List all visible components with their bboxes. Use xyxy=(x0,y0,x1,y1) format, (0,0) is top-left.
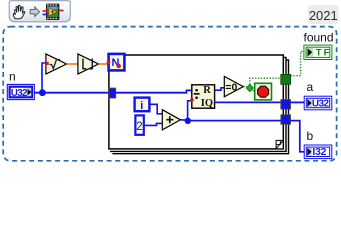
junction dot add out xyxy=(185,118,191,124)
snippet dashed border xyxy=(3,27,336,161)
svg-text:2: 2 xyxy=(136,121,142,133)
wire sqrt to floor xyxy=(67,63,78,65)
svg-text:IQ: IQ xyxy=(201,98,213,109)
coercion dot qr input xyxy=(190,98,194,102)
loop corner fold xyxy=(276,140,283,149)
boolean wire to conditional terminal xyxy=(253,90,256,92)
sqrt node xyxy=(46,54,67,74)
svg-text:R: R xyxy=(203,85,211,96)
wire n inside loop xyxy=(116,90,192,92)
wire add out to tunnel b xyxy=(188,120,281,122)
label a xyxy=(307,80,314,94)
label b xyxy=(307,129,314,143)
VI snippet film icon xyxy=(43,4,64,20)
svg-text:U32: U32 xyxy=(312,99,330,110)
wire add out xyxy=(180,119,187,121)
wire i to add xyxy=(150,104,162,114)
wire IQ to tunnel a xyxy=(215,101,281,103)
svg-text:b: b xyxy=(307,129,314,143)
svg-text:U32: U32 xyxy=(11,88,28,99)
indicator a U32 xyxy=(304,96,332,110)
i iteration terminal xyxy=(135,98,150,113)
svg-text:=0: =0 xyxy=(225,83,237,94)
svg-text:n: n xyxy=(9,70,16,84)
coercion dot sqrt input xyxy=(45,62,48,65)
wire branch up to sqrt xyxy=(42,63,46,93)
add node xyxy=(162,110,180,130)
wire tunnel b to indicator xyxy=(291,121,305,152)
cursor arrow icon xyxy=(30,7,39,16)
N count terminal xyxy=(107,54,125,71)
2021 version badge xyxy=(308,5,339,24)
svg-text:2021: 2021 xyxy=(309,8,338,23)
wire floor to N xyxy=(99,63,109,65)
svg-text:a: a xyxy=(307,80,314,94)
wire 2 to add xyxy=(145,123,163,125)
indicator b I32 xyxy=(304,145,332,159)
tunnel a (blue) xyxy=(281,100,291,110)
floor node xyxy=(78,54,99,74)
hand tool icon xyxy=(13,5,25,19)
wire n out xyxy=(34,92,109,94)
tunnel found (green) xyxy=(281,74,291,84)
tunnel b (blue) xyxy=(281,115,291,125)
equals zero node xyxy=(224,76,243,96)
tunnel n (left) xyxy=(109,88,116,98)
boolean wire up and to tunnel xyxy=(250,78,281,84)
conditional stop terminal xyxy=(255,83,272,100)
svg-text:found: found xyxy=(304,31,334,45)
wire R to equals0 xyxy=(215,88,225,90)
svg-text:TF: TF xyxy=(316,48,332,59)
toolbar frame xyxy=(9,1,70,22)
svg-text:i: i xyxy=(140,100,143,112)
svg-text:I32: I32 xyxy=(312,147,326,158)
label n xyxy=(9,70,16,84)
boolean junction diamond xyxy=(246,84,253,92)
wire junction dot xyxy=(39,89,46,96)
wire up to quotient remainder xyxy=(188,101,192,121)
boolean wire tunnel to TF xyxy=(291,52,304,76)
wire tunnel a to indicator xyxy=(291,101,305,103)
control n U32 xyxy=(7,84,34,99)
for loop frame xyxy=(109,55,289,154)
quotient remainder node xyxy=(192,85,215,109)
constant 2 xyxy=(135,115,143,134)
boolean wire equals0 out xyxy=(244,86,248,88)
label found xyxy=(304,31,334,45)
indicator found TF xyxy=(304,45,332,59)
